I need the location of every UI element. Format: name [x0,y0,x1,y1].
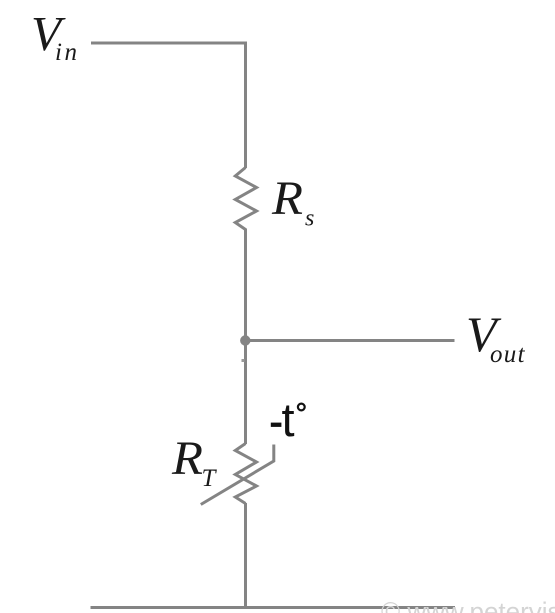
svg-text:R: R [171,432,203,485]
svg-text:in: in [55,39,79,66]
resistor R1 zigzag Rs [235,168,256,230]
svg-text:out: out [490,341,526,368]
node artifact tick [242,359,245,362]
wire Vout horizontal [246,339,455,342]
thermistor strike arrow [201,445,274,505]
wire vertical middle [244,229,247,341]
svg-text:s: s [305,205,314,231]
node A junction dot [240,335,250,345]
wire bottom rail [91,606,456,609]
wire vertical bottom [244,503,247,608]
wire Vin top horizontal [91,42,246,45]
label -t degrees hyphen [271,423,282,427]
svg-text:T: T [202,465,218,492]
wire vertical top [244,42,247,169]
svg-text:© www.petervis.com: © www.petervis.com [381,597,555,613]
svg-text:t: t [282,393,295,446]
label -t degrees circle [298,404,305,411]
svg-text:R: R [271,172,303,225]
wire vertical node-to-thermistor [244,341,247,445]
thermistor R2 zigzag RT [235,444,256,504]
